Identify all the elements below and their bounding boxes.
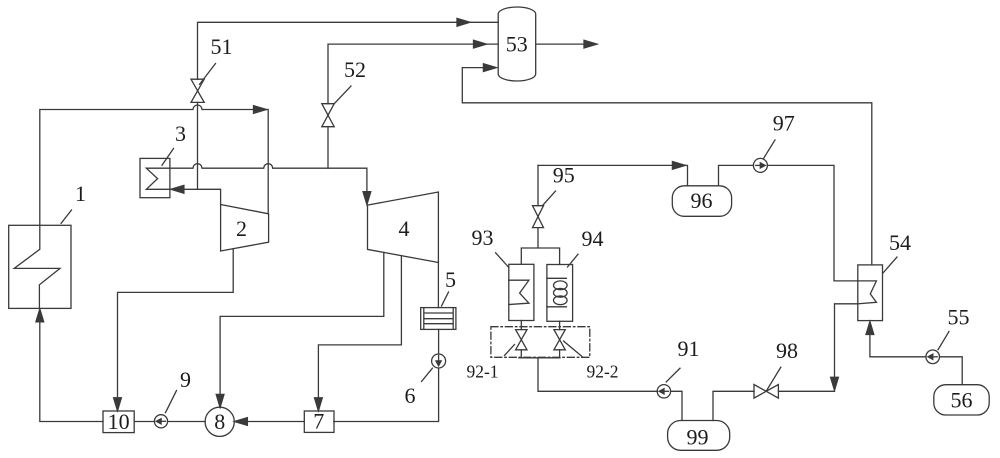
svg-text:99: 99	[687, 425, 709, 450]
arrow into box 7	[315, 398, 323, 411]
svg-text:51: 51	[211, 34, 233, 59]
wire turbine 4 drain 1 to heater 8	[220, 252, 384, 407]
label 9 leader	[166, 391, 177, 413]
deaerator 10	[103, 411, 134, 433]
svg-text:96: 96	[691, 188, 713, 213]
condenser 5	[421, 308, 456, 330]
wire turbine 4 drain 2 to heater 7	[318, 256, 401, 411]
pump 6	[432, 354, 446, 368]
pump 9	[154, 415, 167, 428]
arrow into vessel 53 left	[483, 64, 496, 72]
wire circle 8 to pump 9	[168, 421, 206, 423]
valve 92-1	[516, 330, 527, 350]
wire feedwater deaerator 10 back to boiler 1	[40, 310, 103, 422]
label 6 leader	[422, 368, 433, 381]
svg-text:98: 98	[776, 338, 798, 363]
valve 95	[533, 206, 544, 228]
tank 96	[672, 186, 731, 217]
arrow into circle 8	[216, 394, 224, 407]
label 97 leader	[764, 140, 776, 159]
heater 7	[304, 411, 334, 432]
pump 55	[926, 350, 940, 364]
label 5 leader	[442, 292, 449, 306]
wire tank 99 through valve 98 to exchanger 54 drop	[713, 391, 835, 420]
label 52 leader	[334, 86, 351, 104]
label 91 leader	[666, 368, 680, 382]
arrow 52 line into vessel 53	[474, 40, 487, 48]
wire valve 95 line into tank 96	[538, 165, 688, 185]
svg-text:54: 54	[889, 230, 911, 255]
flash vessel 53	[498, 7, 536, 81]
arrow down at corner	[831, 377, 839, 390]
wire tank 96 through pump 97 to exchanger 54 upper inlet	[719, 165, 858, 281]
wire box 7 to heater 8	[246, 421, 304, 423]
label 94 leader	[568, 254, 579, 267]
svg-text:92-1: 92-1	[466, 362, 498, 382]
svg-text:7: 7	[313, 409, 324, 434]
wire valves 92 header down to pump 91 line	[519, 350, 657, 392]
svg-text:56: 56	[951, 388, 973, 413]
wire pump 9 to deaerator 10	[134, 421, 154, 423]
arrow main steam right	[254, 106, 267, 114]
wire valve 95 branch from pump 97 line down to exchangers 93 94	[521, 165, 559, 264]
dashed valve group box 92	[491, 327, 590, 358]
turbine 2	[221, 205, 269, 252]
label 51 leader	[200, 64, 216, 85]
pump 91	[657, 385, 670, 398]
label 54 leader	[883, 257, 897, 273]
arrow into turbine 4	[363, 192, 371, 205]
svg-text:91: 91	[678, 336, 700, 361]
svg-text:55: 55	[948, 305, 970, 330]
svg-text:95: 95	[553, 163, 575, 188]
svg-text:53: 53	[506, 32, 528, 57]
wire pump 91 to tank 99	[671, 391, 682, 420]
label 1 leader	[61, 210, 71, 223]
valve 98	[754, 385, 778, 399]
svg-text:1: 1	[75, 181, 86, 206]
svg-text:97: 97	[773, 111, 795, 136]
arrow 53 outlet	[584, 40, 597, 48]
svg-text:2: 2	[236, 216, 247, 241]
svg-text:6: 6	[405, 383, 416, 408]
svg-text:92-2: 92-2	[586, 362, 618, 382]
heat exchanger 54	[858, 265, 883, 321]
arrow up into 54 bottom	[866, 322, 874, 335]
valve 92-2	[554, 330, 565, 350]
arrow into heater 3	[171, 185, 184, 193]
wire tank 56 through pump 55 into exchanger 54 bottom	[870, 323, 962, 385]
label 95 leader	[542, 191, 555, 206]
label 98 leader	[766, 367, 781, 391]
svg-text:93: 93	[472, 225, 494, 250]
svg-text:10: 10	[108, 409, 130, 434]
label 3 leader	[162, 149, 174, 166]
valve 52	[322, 104, 334, 127]
wire turbine 2 drain to deaerator 10	[118, 249, 234, 411]
svg-text:3: 3	[175, 121, 186, 146]
heat exchanger 94 with coil	[547, 265, 573, 322]
wire boiler riser and main steam line to turbine 2 inlet	[40, 105, 268, 225]
label 92-1 leader	[505, 345, 515, 356]
heater 8	[205, 407, 234, 436]
svg-text:52: 52	[344, 57, 366, 82]
wire valve 51 branch from cold reheat up to flash vessel 53	[198, 22, 499, 189]
wire exchanger 54 lower outlet down to valve 98 line	[835, 304, 858, 390]
arrow into circle 8 right	[234, 418, 247, 426]
wire vessel 53 steam outlet	[536, 43, 585, 45]
boiler 1	[9, 225, 71, 308]
heat exchanger 3	[140, 158, 170, 197]
tank 99	[668, 421, 730, 451]
svg-text:9: 9	[180, 367, 191, 392]
svg-text:4: 4	[399, 216, 410, 241]
wire valve 52 branch to vessel 53	[328, 44, 498, 168]
label 93 leader	[496, 253, 509, 267]
wire hot reheat heater 3 to turbine 4 inlet	[170, 164, 367, 204]
heat exchanger 93	[509, 264, 534, 320]
tank 56	[934, 385, 989, 415]
valve 51	[191, 79, 204, 102]
svg-text:5: 5	[445, 267, 456, 292]
svg-text:8: 8	[214, 409, 225, 434]
label 92-2 leader	[564, 341, 583, 357]
arrow 51 line into vessel 53	[457, 18, 470, 26]
pump 97	[753, 158, 767, 172]
wire heat exchanger 54 top loop into vessel 53	[462, 68, 872, 265]
wire turbine 4 exhaust through condenser 5 and pump 6	[334, 263, 439, 422]
wire cold reheat turbine 2 to heater 3	[183, 189, 221, 204]
arrow into box 10	[114, 398, 122, 411]
turbine 4	[368, 192, 439, 263]
wire stubs exchangers to valves 92	[521, 321, 559, 330]
label 55 leader	[938, 332, 949, 350]
svg-text:94: 94	[582, 226, 604, 251]
arrow into boiler bottom	[36, 309, 44, 322]
arrow into tank 96 corner	[672, 162, 685, 170]
